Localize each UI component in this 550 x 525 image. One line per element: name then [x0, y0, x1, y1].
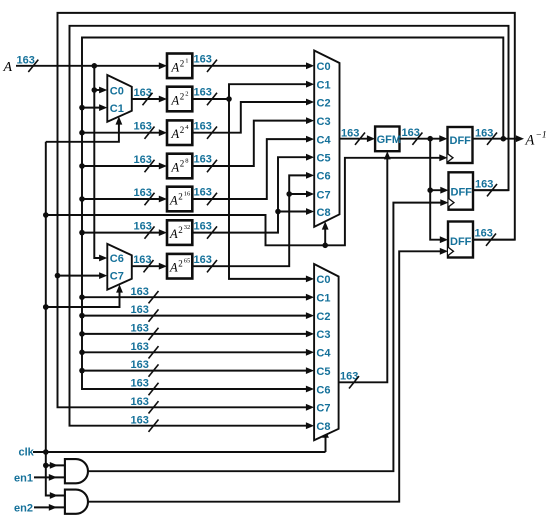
mux U2 (2:1, C6/C7)	[107, 244, 132, 290]
mux M1 (9:1 upper)	[314, 51, 339, 227]
multiplier GFM U3	[375, 127, 399, 152]
svg-text:C1: C1	[316, 293, 330, 305]
svg-text:A: A	[525, 133, 535, 149]
wire low mux C5 from net C	[79, 368, 85, 374]
junction A distribution	[92, 63, 98, 69]
svg-text:C6: C6	[317, 171, 331, 183]
svg-text:A: A	[171, 94, 180, 108]
wire mux U2 input C7 from net A	[58, 275, 101, 277]
svg-text:163: 163	[194, 254, 212, 266]
flip-flop DFF2	[449, 172, 474, 209]
svg-text:163: 163	[194, 187, 212, 199]
svg-text:8: 8	[185, 158, 188, 165]
svg-text:C1: C1	[110, 103, 124, 115]
svg-text:−1: −1	[536, 131, 547, 141]
wire feedback net C (A-inverse output wrap, inner)	[82, 38, 503, 390]
wire feedback net B (DFF2 output wrap, middle)	[70, 26, 509, 426]
mux U1 (2:1, C0/C1)	[107, 75, 132, 122]
svg-text:GFM: GFM	[377, 134, 401, 146]
svg-text:A: A	[171, 127, 180, 141]
svg-text:clk: clk	[19, 447, 35, 459]
svg-text:16: 16	[184, 191, 191, 198]
svg-text:163: 163	[134, 220, 152, 232]
squarer S1 (A^2^1)	[167, 54, 192, 79]
svg-text:C6: C6	[316, 384, 330, 396]
svg-text:163: 163	[131, 414, 149, 426]
squarer S2 (A^2^2)	[167, 87, 192, 112]
svg-text:C1: C1	[317, 80, 331, 92]
svg-text:163: 163	[131, 323, 149, 335]
junction clk net dots	[43, 212, 49, 218]
svg-text:2: 2	[180, 58, 185, 68]
wire en2 input	[34, 506, 65, 508]
svg-text:C5: C5	[316, 366, 330, 378]
wire A distribution vertical	[94, 66, 100, 258]
squarer S7 (A^2^65)	[167, 254, 192, 279]
wire squarer S4 input from net C	[79, 163, 85, 169]
svg-text:163: 163	[131, 341, 149, 353]
svg-text:163: 163	[341, 127, 359, 139]
svg-text:DFF: DFF	[450, 135, 472, 147]
svg-text:DFF: DFF	[450, 236, 472, 248]
flip-flop DFF3	[448, 222, 473, 258]
svg-text:163: 163	[134, 154, 152, 166]
svg-text:C3: C3	[317, 116, 331, 128]
svg-text:C4: C4	[317, 134, 332, 146]
svg-text:C0: C0	[316, 274, 330, 286]
svg-text:C2: C2	[316, 311, 330, 323]
svg-text:A: A	[169, 194, 178, 208]
AND gate G1 (clk AND en1)	[65, 459, 88, 483]
wire AND2 output to DFF3 clock	[88, 251, 441, 501]
svg-text:A: A	[169, 227, 178, 241]
svg-text:C4: C4	[316, 348, 331, 360]
svg-text:C2: C2	[317, 97, 331, 109]
wire low mux C3 from net C	[79, 331, 85, 337]
AND gate G2 (clk AND en2)	[65, 490, 88, 514]
svg-text:C6: C6	[110, 253, 124, 265]
svg-text:32: 32	[184, 224, 191, 231]
svg-text:163: 163	[475, 127, 493, 139]
svg-text:C0: C0	[110, 86, 124, 98]
wire mux U1 input C0	[94, 89, 100, 91]
svg-text:2: 2	[180, 125, 185, 135]
svg-text:163: 163	[131, 396, 149, 408]
wire en1 input	[34, 476, 65, 478]
svg-text:163: 163	[194, 87, 212, 99]
wire mux U1 select from clk	[46, 123, 119, 141]
wire squarer S5 input from net C	[79, 196, 85, 202]
svg-text:A: A	[171, 60, 180, 74]
svg-text:2: 2	[180, 159, 185, 169]
wire mux U1 input C1 from net C	[82, 107, 100, 109]
wire low mux C2 from net C	[79, 313, 85, 319]
wire mux U2 select from clk	[46, 291, 120, 307]
svg-text:2: 2	[178, 192, 183, 202]
svg-text:en1: en1	[14, 473, 33, 485]
svg-text:163: 163	[131, 378, 149, 390]
wire squarer S3 input from net C	[79, 130, 85, 136]
svg-text:C7: C7	[317, 189, 331, 201]
svg-text:163: 163	[131, 304, 149, 316]
svg-text:163: 163	[194, 220, 212, 232]
wire squarer S6 input from net C	[79, 230, 85, 236]
svg-text:163: 163	[131, 359, 149, 371]
wire feedback net A (DFF3 output wrap, outermost)	[58, 13, 515, 407]
svg-text:163: 163	[17, 54, 35, 66]
svg-text:C8: C8	[316, 421, 330, 433]
mux M2 (9:1 lower)	[314, 264, 339, 440]
svg-text:A: A	[169, 261, 178, 275]
svg-text:163: 163	[194, 54, 212, 66]
svg-text:163: 163	[133, 254, 151, 266]
svg-text:C5: C5	[317, 153, 331, 165]
svg-text:2: 2	[178, 259, 183, 269]
svg-text:C0: C0	[317, 61, 331, 73]
svg-text:1: 1	[185, 57, 188, 64]
svg-text:C7: C7	[110, 271, 124, 283]
wire low mux C1 from net C	[79, 294, 85, 300]
svg-text:163: 163	[475, 228, 493, 240]
squarer S3 (A^2^4)	[167, 120, 192, 145]
svg-text:163: 163	[134, 121, 152, 133]
squarer S5 (A^2^16)	[167, 187, 192, 212]
svg-text:C8: C8	[317, 207, 331, 219]
svg-text:DFF: DFF	[451, 187, 473, 199]
svg-text:C3: C3	[316, 329, 330, 341]
wire low mux C4 from net C	[79, 350, 85, 356]
svg-text:C7: C7	[316, 403, 330, 415]
svg-text:163: 163	[475, 179, 493, 191]
svg-text:163: 163	[134, 187, 152, 199]
svg-text:2: 2	[178, 225, 183, 235]
squarer S6 (A^2^32)	[167, 220, 192, 245]
svg-text:163: 163	[194, 120, 212, 132]
svg-text:163: 163	[194, 154, 212, 166]
squarer S4 (A^2^8)	[167, 154, 192, 179]
svg-text:163: 163	[131, 286, 149, 298]
wire clk distribution	[33, 142, 441, 496]
svg-text:65: 65	[184, 258, 191, 265]
svg-text:163: 163	[402, 127, 420, 139]
flip-flop DFF1	[448, 127, 473, 163]
svg-text:A: A	[3, 60, 13, 75]
svg-text:2: 2	[180, 92, 185, 102]
svg-text:2: 2	[185, 91, 188, 98]
wire AND1 output to DFF2 clock	[88, 203, 441, 472]
svg-text:A: A	[171, 161, 180, 175]
svg-text:en2: en2	[14, 503, 33, 515]
